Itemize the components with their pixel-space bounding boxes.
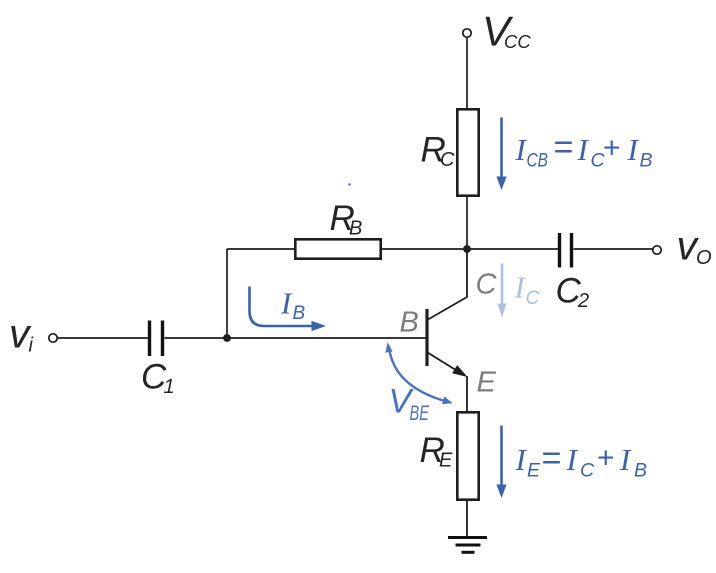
- resistor RC: [421, 109, 479, 195]
- svg-text:+: +: [597, 442, 615, 475]
- current arrow ICB: [496, 118, 506, 191]
- svg-text:C: C: [440, 149, 455, 171]
- svg-text:I: I: [280, 286, 293, 321]
- wire left vertical feedback: [226, 249, 228, 338]
- svg-text:I: I: [619, 442, 632, 477]
- capacitor C1: [141, 321, 175, 399]
- wire VCC stem: [466, 37, 468, 108]
- emitter wire down: [466, 376, 468, 412]
- current arrow IB: [250, 287, 327, 332]
- svg-text:B: B: [349, 218, 362, 240]
- transistor Q1: [427, 249, 468, 412]
- svg-text:B: B: [634, 460, 647, 482]
- node collector junction: [463, 245, 471, 253]
- resistor RB: [295, 199, 380, 259]
- svg-text:C: C: [580, 460, 595, 482]
- resistor RE: [420, 412, 479, 499]
- terminal vO: [653, 223, 712, 270]
- wire C1 to base: [165, 337, 426, 339]
- svg-text:I: I: [577, 132, 590, 167]
- base bar: [425, 309, 428, 366]
- terminal vi: [9, 311, 57, 357]
- wire left lead of RB: [227, 248, 295, 250]
- emitter lead: [428, 353, 460, 373]
- label IC: [514, 270, 540, 310]
- svg-text:I: I: [515, 442, 528, 477]
- svg-text:1: 1: [164, 376, 175, 398]
- wire RC to collector node: [466, 197, 468, 249]
- voltage arrow VBE: [385, 342, 452, 404]
- svg-text:CC: CC: [504, 31, 531, 52]
- svg-text:E: E: [527, 460, 541, 482]
- node base junction: [223, 334, 231, 342]
- wire RB to node to C2: [381, 248, 558, 250]
- collector lead: [428, 249, 467, 320]
- wire vi to C1: [57, 337, 148, 339]
- svg-text:I: I: [627, 132, 640, 167]
- label IB: [280, 286, 306, 325]
- svg-text:CB: CB: [527, 150, 549, 172]
- wire RE to ground: [466, 500, 468, 537]
- emitter arrowhead: [452, 365, 467, 377]
- svg-text:E: E: [477, 367, 497, 399]
- current arrow IE: [496, 426, 506, 499]
- terminal VCC: [463, 8, 532, 55]
- svg-text:C: C: [476, 269, 498, 301]
- svg-text:2: 2: [577, 290, 589, 312]
- svg-text:+: +: [603, 132, 621, 165]
- current arrow IC: [498, 264, 507, 318]
- svg-text:I: I: [566, 442, 579, 477]
- ground: [448, 538, 487, 553]
- svg-text:B: B: [400, 307, 419, 339]
- svg-text:BE: BE: [410, 402, 430, 425]
- wire C2 to vO: [574, 248, 654, 250]
- label IE = IC + IB: [515, 440, 648, 482]
- svg-text:E: E: [439, 450, 453, 472]
- label VBE: [389, 383, 430, 426]
- svg-text:B: B: [640, 150, 653, 172]
- svg-text:C: C: [526, 288, 540, 309]
- label ICB = IC + IB: [515, 129, 653, 172]
- svg-text:B: B: [293, 303, 306, 324]
- svg-text:=: =: [542, 440, 562, 478]
- capacitor C2: [556, 233, 590, 312]
- svg-text:O: O: [696, 247, 712, 269]
- stray blue dot: [348, 183, 351, 186]
- svg-text:i: i: [29, 335, 34, 357]
- svg-text:=: =: [554, 129, 574, 167]
